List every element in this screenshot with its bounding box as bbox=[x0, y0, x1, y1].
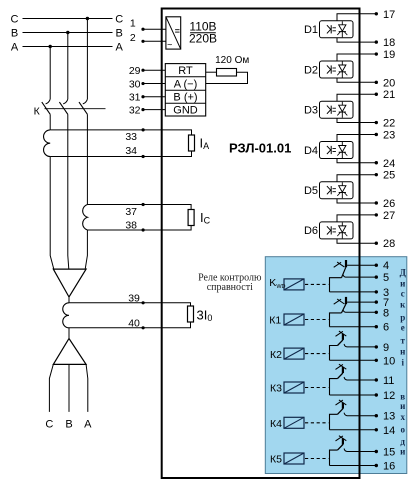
svg-text:20: 20 bbox=[383, 77, 395, 89]
svg-text:29: 29 bbox=[129, 65, 141, 77]
terminal block RT/A/B/GND bbox=[165, 64, 205, 116]
wire K4 lower bbox=[330, 429, 376, 431]
terminal 39 bbox=[142, 301, 145, 304]
wire 29 bbox=[145, 69, 166, 71]
optocoupler D1 bbox=[320, 21, 354, 38]
terminal 6 bbox=[375, 325, 378, 328]
svg-text:д: д bbox=[400, 437, 405, 447]
wire K1 COM bbox=[330, 326, 376, 328]
phase line C bbox=[23, 18, 113, 20]
terminal 15 bbox=[375, 450, 378, 453]
terminal 30 bbox=[141, 82, 144, 85]
wire 24 bbox=[337, 159, 376, 163]
terminal 24 bbox=[375, 161, 378, 164]
junction node on B bbox=[66, 31, 69, 34]
wire 30 bbox=[145, 83, 166, 85]
wire drop C bbox=[86, 19, 88, 100]
svg-text:32: 32 bbox=[129, 104, 141, 116]
terminal 27 bbox=[375, 213, 378, 216]
wire 23 bbox=[337, 135, 376, 142]
terminal 5 bbox=[375, 275, 378, 278]
svg-text:РЗЛ-01.01: РЗЛ-01.01 bbox=[229, 140, 291, 155]
wire K4 upper bbox=[344, 413, 375, 416]
neutral conductor bbox=[68, 297, 70, 303]
terminal 3 bbox=[375, 290, 378, 293]
svg-text:B: B bbox=[11, 27, 18, 39]
optocoupler D2 bbox=[320, 61, 354, 78]
svg-text:К3: К3 bbox=[270, 383, 282, 395]
wire 19 bbox=[337, 54, 376, 61]
wire K3 upper bbox=[344, 377, 375, 380]
svg-text:К2: К2 bbox=[270, 349, 282, 361]
wire K2 lower bbox=[330, 359, 376, 361]
svg-text:к: к bbox=[400, 300, 406, 310]
terminal 16 bbox=[375, 464, 378, 467]
up triangle bbox=[53, 339, 86, 365]
wire KWD NO bbox=[343, 274, 376, 277]
svg-text:5: 5 bbox=[383, 272, 389, 284]
svg-text:D4: D4 bbox=[304, 145, 318, 157]
wire 17 bbox=[337, 14, 376, 21]
svg-text:9: 9 bbox=[383, 342, 389, 354]
terminal 11 bbox=[375, 378, 378, 381]
terminal 32 bbox=[141, 108, 144, 111]
phase line A bbox=[23, 46, 113, 48]
svg-text:D5: D5 bbox=[304, 185, 318, 197]
contact K4 bbox=[330, 414, 338, 430]
terminal 34 bbox=[142, 155, 145, 158]
svg-text:и: и bbox=[400, 447, 405, 457]
terminal 2 bbox=[141, 40, 144, 43]
relay K3 coil bbox=[284, 382, 304, 393]
svg-text:37: 37 bbox=[125, 206, 137, 218]
svg-text:38: 38 bbox=[125, 220, 137, 232]
svg-text:26: 26 bbox=[383, 198, 395, 210]
CT 3I0 winding bbox=[63, 303, 69, 328]
breaker K pole 2 bbox=[63, 99, 68, 104]
relay K2 coil bbox=[284, 348, 304, 359]
phase C conductor lower bbox=[85, 230, 87, 269]
svg-text:А: А bbox=[84, 419, 92, 431]
device enclosure РЗЛ-01.01 bbox=[162, 9, 360, 479]
svg-text:C: C bbox=[11, 13, 19, 25]
terminal 9 bbox=[375, 345, 378, 348]
junction node on C bbox=[86, 17, 89, 20]
wire 21 bbox=[337, 94, 376, 101]
wire drop A bbox=[49, 47, 51, 100]
terminal 31 bbox=[141, 95, 144, 98]
wire 26 bbox=[337, 199, 376, 203]
terminal 22 bbox=[375, 121, 378, 124]
dashed link K1 bbox=[305, 319, 329, 321]
down triangle bbox=[53, 269, 86, 297]
wire 38 bbox=[87, 226, 191, 231]
wire KWD NC bbox=[347, 264, 375, 266]
svg-text:6: 6 bbox=[383, 322, 389, 334]
svg-text:D2: D2 bbox=[304, 64, 318, 76]
terminal 14 bbox=[375, 428, 378, 431]
relay KWD coil bbox=[284, 279, 304, 290]
terminal 20 bbox=[375, 81, 378, 84]
terminal 37 bbox=[142, 203, 145, 206]
terminal 28 bbox=[375, 242, 378, 245]
svg-text:К: К bbox=[34, 106, 41, 118]
dashed link K3 bbox=[305, 387, 329, 389]
svg-text:К4: К4 bbox=[270, 418, 282, 430]
terminal 19 bbox=[375, 52, 378, 55]
svg-text:12: 12 bbox=[383, 390, 395, 402]
svg-text:справності: справності bbox=[207, 282, 253, 293]
wire K1 NO bbox=[343, 310, 376, 313]
svg-text:Д: Д bbox=[400, 268, 407, 278]
svg-text:17: 17 bbox=[383, 9, 395, 21]
svg-text:14: 14 bbox=[383, 425, 395, 437]
svg-text:11: 11 bbox=[383, 375, 394, 387]
power supply unit bbox=[166, 17, 181, 49]
svg-text:е: е bbox=[401, 322, 405, 332]
svg-text:К1: К1 bbox=[269, 315, 281, 327]
terminal 17 bbox=[375, 12, 378, 15]
svg-text:т: т bbox=[400, 335, 405, 345]
terminal 38 bbox=[142, 228, 145, 231]
svg-text:С: С bbox=[45, 419, 53, 431]
svg-text:39: 39 bbox=[128, 292, 140, 304]
relay K5 coil bbox=[284, 453, 304, 464]
svg-text:В: В bbox=[65, 419, 72, 431]
terminal 40 bbox=[142, 326, 145, 329]
wire 2 bbox=[145, 40, 166, 42]
phase B conductor bbox=[68, 114, 69, 269]
discrete outputs blue panel bbox=[265, 257, 407, 474]
wire 39 bbox=[69, 303, 191, 306]
terminal 18 bbox=[375, 40, 378, 43]
contact K2 bbox=[330, 346, 338, 361]
svg-text:и: и bbox=[400, 279, 405, 289]
wire 22 bbox=[337, 118, 376, 122]
svg-text:4: 4 bbox=[383, 260, 389, 272]
svg-text:220В: 220В bbox=[189, 32, 217, 46]
terminal 25 bbox=[375, 173, 378, 176]
wire 27 bbox=[337, 215, 376, 222]
breaker linkage bbox=[45, 108, 106, 110]
svg-text:10: 10 bbox=[383, 355, 395, 367]
svg-text:31: 31 bbox=[129, 91, 141, 103]
relay K4 coil bbox=[284, 417, 304, 428]
svg-text:33: 33 bbox=[125, 131, 137, 143]
terminal 21 bbox=[375, 93, 378, 96]
phase A conductor bbox=[49, 114, 51, 130]
svg-text:15: 15 bbox=[383, 447, 395, 459]
svg-text:27: 27 bbox=[383, 210, 395, 222]
wire 31 bbox=[145, 96, 166, 98]
phase A conductor lower bbox=[50, 157, 54, 270]
phase C conductor bbox=[86, 114, 88, 204]
terminal 4 bbox=[375, 264, 378, 267]
wire 40 bbox=[69, 322, 191, 328]
optocoupler D4 bbox=[320, 142, 354, 159]
contact K5 bbox=[330, 450, 338, 465]
contact K3 bbox=[330, 379, 338, 395]
wire 1 bbox=[145, 28, 166, 30]
breaker K pole 1 bbox=[46, 99, 51, 104]
svg-text:C: C bbox=[115, 13, 123, 25]
resistor IC bbox=[188, 210, 194, 226]
svg-text:23: 23 bbox=[383, 129, 395, 141]
wire K5 lower bbox=[330, 465, 376, 467]
svg-text:13: 13 bbox=[383, 411, 395, 423]
resistor IA bbox=[189, 135, 195, 151]
wire K1 NC bbox=[347, 301, 375, 303]
terminal 13 bbox=[375, 414, 378, 417]
terminal 26 bbox=[375, 201, 378, 204]
svg-text:о: о bbox=[400, 425, 405, 435]
CT C winding bbox=[83, 205, 88, 231]
svg-text:GND: GND bbox=[173, 104, 198, 116]
svg-text:~: ~ bbox=[167, 40, 172, 50]
wire K3 lower bbox=[330, 394, 376, 396]
svg-text:21: 21 bbox=[383, 89, 395, 101]
svg-text:р: р bbox=[400, 313, 405, 323]
terminal 23 bbox=[375, 133, 378, 136]
dashed link K2 bbox=[305, 353, 329, 355]
return conductor A bbox=[86, 364, 88, 412]
svg-text:D1: D1 bbox=[304, 24, 318, 36]
svg-text:16: 16 bbox=[383, 461, 395, 473]
svg-text:28: 28 bbox=[383, 238, 395, 250]
svg-text:A: A bbox=[116, 41, 124, 53]
phase line B bbox=[23, 32, 113, 34]
optocoupler D3 bbox=[320, 101, 354, 118]
dashed link K5 bbox=[305, 458, 329, 460]
optocoupler D6 bbox=[320, 222, 354, 239]
contact group KWD bbox=[330, 278, 342, 292]
wire K2 upper bbox=[344, 344, 375, 347]
svg-text:с: с bbox=[401, 288, 405, 298]
wire 37 bbox=[87, 205, 191, 210]
terminal 10 bbox=[375, 359, 378, 362]
wire 32 bbox=[145, 109, 166, 111]
wire drop B bbox=[67, 33, 69, 100]
resistor 3I0 bbox=[188, 306, 194, 322]
terminal 7 bbox=[375, 300, 378, 303]
svg-text:н: н bbox=[400, 347, 405, 357]
svg-text:B: B bbox=[116, 27, 123, 39]
svg-text:A: A bbox=[11, 41, 19, 53]
svg-text:D3: D3 bbox=[304, 105, 318, 117]
wire 34 bbox=[50, 151, 191, 157]
svg-text:х: х bbox=[400, 412, 405, 422]
svg-text:40: 40 bbox=[128, 317, 140, 329]
svg-text:1: 1 bbox=[130, 17, 136, 29]
wire 25 bbox=[337, 175, 376, 182]
svg-text:22: 22 bbox=[383, 118, 395, 130]
svg-text:8: 8 bbox=[383, 307, 389, 319]
svg-text:A (−): A (−) bbox=[174, 78, 198, 90]
resistor 120 Ом bbox=[206, 71, 217, 73]
neutral conductor lower bbox=[68, 328, 70, 339]
terminal 33 bbox=[142, 128, 145, 131]
wire 20 bbox=[337, 78, 376, 82]
svg-text:19: 19 bbox=[383, 49, 395, 61]
terminal 1 bbox=[141, 28, 144, 31]
svg-text:25: 25 bbox=[383, 170, 395, 182]
wire K5 upper bbox=[344, 449, 375, 452]
terminal 8 bbox=[375, 311, 378, 314]
terminal 29 bbox=[141, 69, 144, 72]
relay K1 coil bbox=[284, 314, 304, 325]
return conductor B bbox=[68, 364, 70, 412]
breaker K pole 3 bbox=[83, 99, 88, 104]
svg-text:RT: RT bbox=[178, 65, 193, 77]
svg-text:D6: D6 bbox=[304, 225, 318, 237]
svg-text:18: 18 bbox=[383, 37, 395, 49]
svg-text:120 Ом: 120 Ом bbox=[215, 55, 249, 66]
junction node on A bbox=[49, 45, 52, 48]
svg-text:24: 24 bbox=[383, 158, 395, 170]
optocoupler D5 bbox=[320, 182, 354, 199]
svg-text:B (+): B (+) bbox=[173, 91, 197, 103]
wire KWD COM bbox=[330, 291, 376, 293]
svg-text:в: в bbox=[400, 392, 405, 402]
wire 33 bbox=[50, 130, 191, 135]
dashed link K4 bbox=[305, 422, 329, 424]
wire 28 bbox=[337, 239, 376, 243]
svg-text:и: и bbox=[400, 401, 405, 411]
svg-text:30: 30 bbox=[129, 78, 141, 90]
contact group K1 bbox=[330, 313, 342, 327]
return conductor C bbox=[49, 364, 53, 412]
CT A winding bbox=[44, 130, 51, 157]
svg-text:2: 2 bbox=[130, 32, 136, 44]
dashed link KWD bbox=[305, 283, 329, 285]
terminal 12 bbox=[375, 393, 378, 396]
wire 18 bbox=[337, 38, 376, 42]
svg-text:34: 34 bbox=[125, 145, 137, 157]
svg-text:К5: К5 bbox=[270, 454, 282, 466]
